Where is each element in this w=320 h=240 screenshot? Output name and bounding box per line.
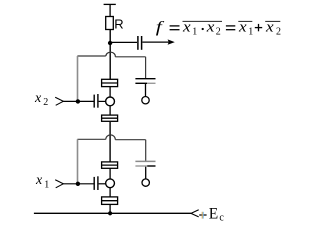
plus sign colored — [199, 212, 206, 219]
wire VT1 body to source — [109, 188, 111, 197]
wire lower left vertical — [77, 139, 79, 184]
rail end arrow — [191, 210, 199, 217]
transistor VT1 body circle — [106, 179, 115, 188]
label Ec — [209, 206, 225, 224]
svg-text:x: x — [35, 173, 43, 188]
svg-text:c: c — [219, 213, 224, 224]
transistor VT1 drain contact — [102, 162, 118, 168]
output wire with arrow f — [142, 39, 174, 44]
wire VT2 drain to body — [109, 87, 111, 98]
node rail — [108, 211, 112, 215]
wire gate to body lower — [99, 183, 106, 185]
formula f = x1·x2 bar = x1bar + x2bar — [156, 19, 281, 38]
wire gate feedback lower horizontal with hop — [77, 135, 145, 140]
svg-text:x: x — [34, 91, 42, 106]
substrate capacitor lower — [135, 161, 155, 179]
wire VT2 body to source — [109, 106, 111, 115]
svg-text:2: 2 — [43, 97, 48, 108]
node x1 input — [76, 182, 80, 186]
wire upper left vertical — [77, 56, 79, 101]
transistor VT1 source contact — [102, 197, 118, 205]
label x1 — [35, 173, 49, 191]
svg-text:2: 2 — [216, 26, 221, 37]
wire gate feedback upper horizontal with hop — [77, 52, 145, 57]
wire node to output capacitor — [110, 41, 137, 43]
input arrow x2 — [55, 97, 63, 105]
svg-text:f: f — [156, 19, 165, 36]
gate capacitor lower transistor — [94, 176, 98, 190]
wire upper right vertical — [145, 57, 147, 78]
svg-text:1: 1 — [248, 26, 253, 37]
transistor VT2 source contact — [102, 115, 118, 121]
wire resistor to node — [109, 30, 111, 80]
svg-text:E: E — [209, 206, 218, 223]
wire VT2 source to VT1 drain — [109, 122, 111, 162]
gate capacitor upper transistor — [94, 94, 98, 108]
wire x2 input — [63, 100, 93, 102]
svg-text:1: 1 — [192, 26, 197, 37]
wire lower right vertical — [145, 140, 147, 161]
label x2 — [34, 91, 48, 108]
svg-text:R: R — [114, 17, 123, 32]
power rail Ec — [34, 212, 191, 214]
wire VT1 source to rail — [109, 204, 111, 213]
power terminal T-bar top — [104, 4, 116, 16]
node below resistor — [108, 41, 112, 45]
resistor R — [106, 17, 114, 30]
wire VT1 drain to body — [109, 168, 111, 179]
wire gate to body upper — [99, 100, 106, 102]
input arrow x1 — [55, 180, 63, 188]
wire x1 input — [63, 183, 93, 185]
node x2 input — [76, 99, 80, 103]
open terminal circle upper — [142, 97, 149, 104]
open terminal circle lower — [142, 179, 149, 186]
output coupling capacitor — [138, 36, 142, 50]
svg-text:1: 1 — [44, 180, 49, 191]
transistor VT2 body circle — [106, 97, 115, 106]
substrate capacitor upper — [135, 79, 155, 97]
transistor VT2 drain contact — [102, 79, 118, 86]
svg-text:2: 2 — [276, 26, 281, 37]
